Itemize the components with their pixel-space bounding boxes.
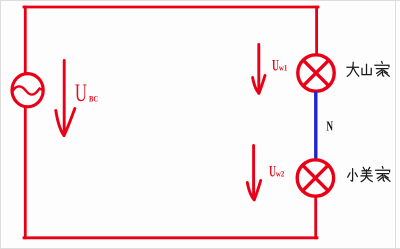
家 xyxy=(381,62,384,64)
arrow U_w1 xyxy=(253,45,265,94)
label 大山家 (Dashan home) xyxy=(347,62,389,77)
AC voltage source xyxy=(12,74,43,107)
label U_w1 xyxy=(272,57,287,74)
label U_w2 xyxy=(269,163,284,180)
svg-text:U: U xyxy=(269,163,276,180)
svg-text:U: U xyxy=(75,79,87,107)
wire bottom xyxy=(24,236,317,239)
label 小美家 (Xiaomei home) xyxy=(348,167,390,182)
svg-text:U: U xyxy=(272,57,279,74)
lamp EL1 (Dashan) xyxy=(298,55,334,91)
label U_BC xyxy=(75,79,98,107)
svg-text:w1: w1 xyxy=(279,62,287,72)
山 xyxy=(366,64,368,74)
wire left lower xyxy=(24,107,27,238)
lamp EL2 (Xiaomei) xyxy=(297,160,333,196)
node N label xyxy=(326,118,333,135)
arrow U_w2 xyxy=(247,146,260,200)
wire neutral (blue) xyxy=(314,92,317,162)
wire left upper xyxy=(24,7,27,74)
家 xyxy=(381,167,384,169)
svg-text:BC: BC xyxy=(89,94,98,104)
svg-text:N: N xyxy=(326,118,333,135)
大 xyxy=(347,66,359,68)
美 xyxy=(363,167,365,170)
小 xyxy=(351,169,353,182)
svg-text:w2: w2 xyxy=(276,169,284,179)
wire top xyxy=(24,6,318,9)
arrow U_BC xyxy=(56,61,75,136)
wire right upper xyxy=(315,7,318,55)
wire right lower xyxy=(314,197,317,238)
